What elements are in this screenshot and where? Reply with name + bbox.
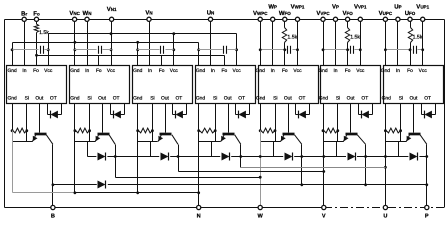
- wire VWPC to box5 Gnd: [260, 22, 262, 66]
- wire bottom outline dashed: [324, 207, 444, 209]
- svg-text:Fo: Fo: [407, 68, 413, 74]
- wire bus P / brake: [53, 184, 427, 186]
- svg-text:Gnd: Gnd: [70, 68, 80, 74]
- terminal UFO: [408, 17, 412, 21]
- wire VUP1 to box7 Vcc: [422, 22, 424, 66]
- svg-text:OT: OT: [424, 96, 431, 102]
- svg-text:Fo: Fo: [159, 68, 165, 74]
- terminal VFO: [346, 17, 350, 21]
- wire right outline: [444, 20, 446, 208]
- wire Gnd stub Q4: [198, 104, 200, 131]
- wire WN to box2 In: [87, 22, 89, 66]
- temp diode D6t: [361, 111, 363, 119]
- terminal Br: [22, 17, 26, 21]
- terminal WN: [85, 17, 89, 21]
- wire emitter jog Q1: [13, 141, 33, 143]
- svg-text:UFO: UFO: [405, 10, 416, 17]
- wire emitter jog Q4: [199, 141, 221, 143]
- svg-text:Si: Si: [399, 96, 403, 102]
- wire Si down Q4: [215, 131, 217, 142]
- driver IC U5: [259, 66, 319, 104]
- wire FWD anode drop Q7: [398, 142, 400, 157]
- wire top outline: [5, 19, 445, 21]
- svg-text:VUPC: VUPC: [379, 10, 393, 17]
- resistor gate R2: [76, 128, 90, 133]
- svg-text:In: In: [396, 68, 400, 74]
- wire bus W-phase collector: [116, 177, 261, 179]
- emitter arrow Q3: [158, 135, 162, 142]
- svg-text:Fo: Fo: [222, 68, 228, 74]
- terminal P: [425, 205, 429, 209]
- wire Gnd pin box1: [12, 43, 14, 66]
- wire cap line box6: [324, 49, 350, 51]
- wire OT diode left Q1: [47, 104, 49, 115]
- svg-text:Si: Si: [25, 96, 29, 102]
- wire Si down Q6: [337, 131, 339, 142]
- node cap fo: [409, 48, 412, 51]
- node Gnd rail junction b2: [74, 41, 77, 44]
- svg-text:Out: Out: [224, 96, 233, 102]
- wire Fo pin box2: [98, 56, 100, 66]
- wire Br to box1 In: [24, 22, 26, 66]
- svg-text:Si: Si: [87, 96, 91, 102]
- resistor gate R7: [386, 128, 401, 133]
- wire VNC down to Gnd rail: [74, 22, 76, 43]
- wire OT diode left Q5: [295, 104, 297, 115]
- svg-text:Gnd: Gnd: [196, 96, 206, 102]
- collector Q3: [172, 135, 178, 145]
- wire VVPC to box6 Gnd: [323, 22, 325, 66]
- resistor gate R1: [13, 128, 27, 133]
- wire WP to box5 In: [272, 22, 274, 66]
- wire Si stub Q4: [215, 104, 217, 131]
- svg-text:In: In: [22, 68, 26, 74]
- svg-text:VVP1: VVP1: [354, 4, 367, 11]
- svg-text:In: In: [148, 68, 152, 74]
- svg-text:Out: Out: [284, 96, 293, 102]
- gate bar Q2: [98, 133, 110, 136]
- wire Vcc pin box3: [173, 34, 175, 66]
- node cap fo: [283, 48, 286, 51]
- wire UFO to box Fo pin: [410, 43, 412, 66]
- gate bar Q4: [223, 133, 235, 136]
- wire FWD anode drop Q5: [273, 142, 275, 157]
- node Fo rail start: [35, 54, 38, 57]
- svg-text:Out: Out: [409, 96, 418, 102]
- svg-text:B: B: [51, 214, 55, 220]
- svg-text:Out: Out: [98, 96, 107, 102]
- wire emitter jog Q5: [261, 141, 281, 143]
- wire cap line box7: [386, 49, 412, 51]
- capacitor C5: [287, 46, 289, 54]
- collector Q6: [357, 135, 365, 145]
- wire OT diode right Q6: [372, 104, 374, 115]
- wire emitter jog Q7: [386, 141, 407, 143]
- collector vertical Q3: [178, 145, 180, 172]
- wire gate lead Q5: [288, 104, 290, 133]
- svg-text:UN: UN: [207, 9, 215, 16]
- freewheel diode D3: [161, 153, 169, 161]
- node cap vcc: [296, 48, 299, 51]
- wire WFO to box Fo pin: [284, 43, 286, 66]
- wire OT diode right Q5: [309, 104, 311, 115]
- terminal VUP1: [421, 17, 425, 21]
- wire OT diode right Q4: [249, 104, 251, 115]
- wire FWD anode drop Q3: [150, 142, 152, 157]
- wire bottom outline: [5, 207, 325, 209]
- wire OT diode left Q4: [235, 104, 237, 115]
- svg-text:Gnd: Gnd: [318, 68, 328, 74]
- wire Si down Q1: [26, 131, 28, 142]
- svg-text:Fo: Fo: [33, 68, 39, 74]
- temp diode D7t: [424, 111, 426, 119]
- driver IC U6: [321, 66, 381, 104]
- wire Si stub Q6: [337, 104, 339, 131]
- svg-text:VWPC: VWPC: [253, 10, 268, 17]
- resistor 1.5k UFO: [408, 28, 412, 43]
- wire Si stub Q7: [400, 104, 402, 131]
- svg-text:Out: Out: [35, 96, 44, 102]
- svg-text:Out: Out: [161, 96, 170, 102]
- wire Gnd stub Q3: [137, 104, 139, 131]
- svg-text:Vcc: Vcc: [419, 68, 428, 74]
- temp diode D2t: [113, 111, 115, 119]
- wire Q3 emitter riser: [137, 142, 139, 193]
- svg-text:Fo: Fo: [96, 68, 102, 74]
- wire VN to box3 In: [149, 22, 151, 66]
- node Gnd cap box3: [136, 48, 139, 51]
- driver IC U3: [133, 66, 193, 104]
- wire OT diode left Q3: [172, 104, 174, 115]
- driver IC U1: [7, 66, 67, 104]
- svg-text:1.5k: 1.5k: [39, 30, 49, 36]
- terminal VVP1: [358, 17, 362, 21]
- temp diode D4t: [238, 111, 240, 119]
- svg-text:1.5k: 1.5k: [287, 35, 297, 41]
- svg-text:In: In: [211, 68, 215, 74]
- wire VVP1 to box6 Vcc: [360, 22, 362, 66]
- svg-text:U: U: [383, 214, 387, 220]
- collector vertical Q1 to B: [52, 145, 54, 206]
- wire VUPC to box7 Gnd: [385, 22, 387, 66]
- svg-text:1.5k: 1.5k: [413, 35, 423, 41]
- svg-text:In: In: [271, 68, 275, 74]
- terminal VN: [147, 17, 151, 21]
- wire Si down Q2: [89, 131, 91, 142]
- freewheel diode D6: [348, 153, 356, 161]
- terminal VWP1: [295, 17, 299, 21]
- freewheel diode D7: [410, 153, 418, 161]
- terminal B: [51, 205, 55, 209]
- svg-text:Si: Si: [273, 96, 277, 102]
- svg-text:Gnd: Gnd: [382, 96, 392, 102]
- wire gate lead Q2: [102, 104, 104, 133]
- wire emitter jog Q6: [324, 141, 344, 143]
- svg-text:Br: Br: [21, 10, 27, 17]
- svg-text:Vcc: Vcc: [293, 68, 302, 74]
- node cap gnd: [384, 48, 387, 51]
- resistor 1.5k VFO: [345, 28, 349, 43]
- svg-text:OT: OT: [176, 96, 183, 102]
- driver IC U2: [70, 66, 130, 104]
- svg-text:Gnd: Gnd: [256, 96, 266, 102]
- node Gnd rail junction b3: [136, 41, 139, 44]
- capacitor C3: [160, 46, 162, 54]
- wire Si down Q7: [400, 131, 402, 142]
- collector vertical Q6 to P bus: [365, 145, 367, 185]
- svg-text:VN1: VN1: [107, 6, 117, 13]
- node cap vcc: [421, 48, 424, 51]
- temp diode D1t: [50, 111, 52, 119]
- temp diode D5t: [298, 111, 300, 119]
- wire Si stub Q5: [275, 104, 277, 131]
- freewheel diode D5: [285, 153, 293, 161]
- wire UFO lead: [410, 22, 412, 28]
- wire FWD anode drop Q4: [211, 142, 213, 157]
- svg-text:OT: OT: [113, 96, 120, 102]
- svg-text:Vcc: Vcc: [233, 68, 242, 74]
- wire gate lead Q1: [39, 104, 41, 133]
- wire Fo to box1 Fo pin: [36, 33, 38, 66]
- node Vcc cap box4: [235, 48, 238, 51]
- svg-text:WP: WP: [268, 4, 277, 11]
- collector Q2: [109, 135, 115, 145]
- wire Q2 emitter riser: [74, 142, 76, 193]
- terminal V: [322, 205, 326, 209]
- resistor gate R5: [261, 128, 275, 133]
- wire OT diode left Q2: [110, 104, 112, 115]
- wire Gnd stub Q2: [74, 104, 76, 131]
- svg-text:Fo: Fo: [282, 68, 288, 74]
- node Vcc cap box2: [110, 48, 113, 51]
- wire WFO lead: [284, 22, 286, 28]
- svg-text:W: W: [258, 214, 264, 220]
- terminal UN: [208, 17, 212, 21]
- svg-text:Vcc: Vcc: [107, 68, 116, 74]
- wire W riser: [260, 131, 262, 206]
- wire VP to box6 In: [335, 22, 337, 66]
- wire N riser: [198, 193, 200, 206]
- resistor gate R4: [199, 128, 215, 133]
- resistor gate R6: [324, 128, 338, 133]
- wire emitter jog Q2: [75, 141, 96, 143]
- wire VN1 to Vcc rail/box2 Vcc: [111, 22, 113, 34]
- svg-text:Gnd: Gnd: [256, 68, 266, 74]
- svg-text:Vcc: Vcc: [44, 68, 53, 74]
- svg-text:Gnd: Gnd: [7, 96, 17, 102]
- wire Gnd pin box4: [198, 43, 200, 66]
- terminal VP: [333, 17, 337, 21]
- emitter arrow Q1: [32, 135, 36, 142]
- wire OT diode left Q7: [421, 104, 423, 115]
- node Vcc rail junction: [110, 32, 113, 35]
- node Gnd cap box2: [74, 48, 77, 51]
- svg-text:Out: Out: [347, 96, 356, 102]
- svg-text:Gnd: Gnd: [70, 96, 80, 102]
- terminal VNC: [73, 17, 77, 21]
- freewheel diode D2: [98, 153, 106, 161]
- svg-text:Gnd: Gnd: [196, 68, 206, 74]
- brake diode D1: [98, 181, 106, 189]
- svg-text:P: P: [425, 214, 429, 220]
- svg-text:VP: VP: [332, 4, 339, 11]
- wire Si stub Q2: [89, 104, 91, 131]
- svg-text:Gnd: Gnd: [133, 96, 143, 102]
- svg-text:OT: OT: [361, 96, 368, 102]
- capacitor C4: [223, 46, 225, 54]
- wire Gnd stub Q5: [260, 104, 262, 131]
- wire cap line box4: [199, 49, 223, 51]
- svg-text:Fo: Fo: [33, 10, 40, 17]
- gate bar Q1: [35, 133, 47, 136]
- svg-text:OT: OT: [299, 96, 306, 102]
- driver IC U7: [384, 66, 444, 104]
- svg-text:OT: OT: [238, 96, 245, 102]
- driver IC U4: [196, 66, 256, 104]
- emitter arrow Q6: [343, 135, 347, 142]
- wire VFO lead: [347, 22, 349, 28]
- gate bar Q6: [346, 133, 358, 136]
- wire Fo pin box3: [161, 56, 163, 66]
- emitter arrow Q4: [221, 135, 225, 142]
- svg-text:In: In: [333, 68, 337, 74]
- wire OT diode right Q1: [61, 104, 63, 115]
- svg-text:VFO: VFO: [342, 10, 353, 17]
- terminal VVPC: [321, 17, 325, 21]
- wire Gnd stub Q7: [385, 104, 387, 131]
- wire Si stub Q3: [152, 104, 154, 131]
- svg-text:Gnd: Gnd: [381, 68, 391, 74]
- resistor 1.5k Fo: [34, 24, 38, 33]
- svg-text:Gnd: Gnd: [319, 96, 329, 102]
- svg-text:VVPC: VVPC: [316, 10, 330, 17]
- wire Vcc pin box1: [48, 34, 50, 66]
- svg-text:VN: VN: [145, 9, 152, 16]
- wire Vcc rail N-side: [49, 33, 237, 35]
- terminal UP: [396, 17, 400, 21]
- svg-text:VWP1: VWP1: [291, 4, 305, 11]
- emitter arrow Q2: [95, 135, 99, 142]
- svg-text:N: N: [197, 214, 201, 220]
- wire Si down Q3: [152, 131, 154, 142]
- collector Q1: [46, 135, 53, 145]
- svg-text:Vcc: Vcc: [170, 68, 179, 74]
- collector Q7: [420, 135, 427, 145]
- svg-text:Gnd: Gnd: [133, 68, 143, 74]
- wire cap line box5: [261, 49, 287, 51]
- capacitor C2: [98, 46, 100, 54]
- wire gate lead Q7: [413, 104, 415, 133]
- collector Q4: [235, 135, 241, 145]
- node cap gnd: [259, 48, 262, 51]
- wire cap line box2: [75, 49, 97, 51]
- terminal WP: [271, 17, 275, 21]
- wire gate lead Q4: [228, 104, 230, 133]
- emitter arrow Q7: [406, 135, 410, 142]
- svg-text:V: V: [322, 214, 326, 220]
- wire FWD row: [88, 156, 427, 158]
- node Vcc cap box3: [172, 48, 175, 51]
- gate bar Q5: [283, 133, 295, 136]
- wire UN to box4 In: [210, 22, 212, 66]
- wire Gnd pin box2: [74, 43, 76, 66]
- svg-text:UP: UP: [394, 4, 401, 11]
- wire cap line box1: [13, 49, 39, 51]
- terminal VUPC: [383, 17, 387, 21]
- wire Fo rail N-side: [37, 55, 225, 57]
- resistor gate R3: [138, 128, 152, 133]
- wire bus U-phase collector: [241, 167, 386, 169]
- wire bus N emitter: [76, 192, 199, 194]
- svg-text:VUP1: VUP1: [416, 4, 429, 11]
- terminal VN1: [110, 17, 114, 21]
- wire OT diode left Q6: [358, 104, 360, 115]
- wire VFO to box Fo pin: [347, 43, 349, 66]
- wire Fo pin box4: [224, 56, 226, 66]
- svg-text:Vcc: Vcc: [356, 68, 365, 74]
- gate bar Q7: [409, 133, 421, 136]
- collector Q5: [295, 135, 302, 145]
- terminal W: [258, 205, 262, 209]
- collector vertical Q2: [115, 145, 117, 178]
- svg-text:1.5k: 1.5k: [350, 35, 360, 41]
- terminal N: [197, 205, 201, 209]
- terminal WFO: [283, 17, 287, 21]
- capacitor C1: [40, 46, 42, 54]
- capacitor C7: [413, 46, 415, 54]
- svg-text:Gnd: Gnd: [7, 68, 17, 74]
- wire emitter jog Q3: [138, 141, 158, 143]
- node cap vcc: [359, 48, 362, 51]
- wire OT diode right Q2: [124, 104, 126, 115]
- terminal VWPC: [258, 17, 262, 21]
- wire OT diode right Q3: [186, 104, 188, 115]
- wire bus N emitter gray: [13, 192, 76, 194]
- wire FWD anode drop Q6: [336, 142, 338, 157]
- node cap fo: [346, 48, 349, 51]
- svg-text:Si: Si: [150, 96, 154, 102]
- freewheel diode D4: [222, 153, 230, 161]
- wire gate lead Q6: [350, 104, 352, 133]
- wire Gnd stub Q1: [12, 104, 14, 131]
- wire V riser: [323, 131, 325, 206]
- node Gnd cap box1: [11, 48, 14, 51]
- collector vertical Q4: [240, 145, 242, 168]
- wire Si down Q5: [275, 131, 277, 142]
- terminal Fo: [34, 17, 38, 21]
- terminal U: [383, 205, 387, 209]
- svg-text:WFO: WFO: [279, 10, 291, 17]
- wire Vcc pin box4: [236, 34, 238, 66]
- wire Q1 emitter riser: [12, 131, 14, 193]
- node Gnd cap box4: [197, 48, 200, 51]
- svg-text:Si: Si: [336, 96, 340, 102]
- wire bus V-phase collector: [179, 171, 324, 173]
- collector vertical Q7 to P: [426, 145, 428, 206]
- wire left outline: [4, 20, 6, 208]
- collector vertical Q5 to P bus: [301, 145, 303, 185]
- wire Si stub Q1: [26, 104, 28, 131]
- emitter arrow Q5: [281, 135, 285, 142]
- gate bar Q3: [160, 133, 172, 136]
- resistor 1.5k WFO: [282, 28, 286, 43]
- wire VWP1 to box5 Vcc: [297, 22, 299, 66]
- wire OT diode right Q7: [435, 104, 437, 115]
- wire FWD anode drop Q2: [87, 142, 89, 157]
- wire Fo lead: [36, 22, 38, 25]
- wire Gnd stub Q6: [323, 104, 325, 131]
- wire UP to box7 In: [397, 22, 399, 66]
